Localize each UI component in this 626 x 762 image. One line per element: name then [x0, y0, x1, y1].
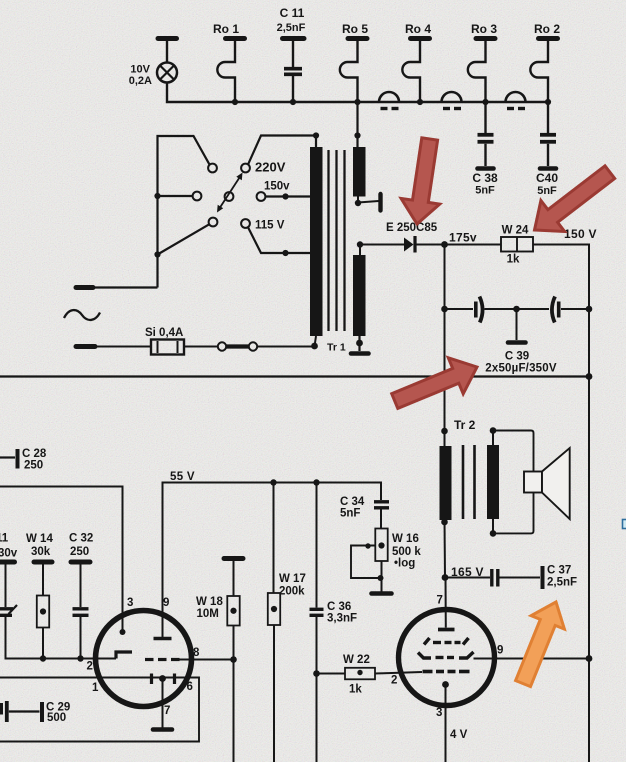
tube V1 grid dashes: [145, 658, 154, 661]
svg-text:W 18: W 18: [196, 596, 223, 608]
wire bus to secondary top: [356, 102, 358, 147]
choke Dr1: [379, 92, 399, 109]
svg-text:10M: 10M: [197, 608, 219, 620]
svg-text:C 34: C 34: [340, 496, 365, 508]
wire fuse to switch contacts: [184, 346, 218, 348]
tube V2 grid 3 row / pin 9: [418, 652, 474, 658]
svg-text:4 V: 4 V: [450, 729, 468, 741]
switch contact H: [218, 342, 226, 350]
wire 150V tap: [265, 195, 310, 197]
svg-text:3: 3: [436, 707, 442, 719]
tube V2 envelope: [399, 610, 495, 706]
wire 220V contact to transformer top: [248, 136, 316, 165]
svg-text:Tr 1: Tr 1: [327, 342, 346, 354]
wire Tr2 primary down to 165V: [444, 520, 447, 578]
tube heater Ro 4: [402, 39, 429, 103]
wire lower terminal to fuse: [95, 346, 151, 348]
svg-text:5nF: 5nF: [475, 185, 495, 197]
pilot lamp La 10V 0.2A: [129, 39, 177, 88]
svg-text:Ro 2: Ro 2: [534, 22, 560, 36]
wire W24 to right rail: [533, 245, 589, 762]
mains terminal upper: [76, 285, 93, 290]
wire: lamp to heater bus: [167, 83, 548, 103]
capacitor C38 5nF: [472, 102, 498, 197]
transformer Tr1 primary winding: [310, 147, 323, 336]
svg-text:8: 8: [193, 647, 200, 659]
svg-text:150v: 150v: [264, 181, 290, 193]
wire to tube1 pin 3: [0, 487, 123, 633]
svg-text:C 11: C 11: [280, 6, 305, 20]
switch blade: [226, 344, 248, 348]
svg-text:Ro 4: Ro 4: [405, 22, 431, 36]
capacitor C39a (electrolytic): [445, 297, 517, 323]
annotation red arrow 2 (W24): [535, 166, 615, 232]
svg-text:250: 250: [70, 546, 89, 558]
svg-text:200k: 200k: [279, 586, 305, 598]
selector wiper contact D: [225, 192, 234, 201]
svg-text:9: 9: [497, 645, 503, 657]
capacitor to C37: [445, 577, 490, 579]
svg-text:Ro 1: Ro 1: [213, 22, 239, 36]
tube V2 grid 1 row: [423, 670, 470, 674]
Tr2 core: [462, 445, 465, 519]
svg-text:2,5nF: 2,5nF: [277, 22, 306, 34]
trimmer capacitor (left edge): [0, 562, 116, 659]
diode E250C85 (selenium rectifier): [386, 222, 438, 253]
capacitor C32 250: [69, 533, 93, 659]
box around cathode circuit (pins 1/6 wire): [0, 678, 199, 742]
mains terminal lower: [76, 344, 95, 349]
choke Dr2: [442, 92, 462, 109]
svg-text:Ro 3: Ro 3: [471, 22, 497, 36]
svg-text:2,5nF: 2,5nF: [547, 577, 577, 589]
svg-text:C 28: C 28: [22, 448, 47, 460]
svg-text:1: 1: [92, 682, 99, 694]
Tr1 secondary bottom to chassis: [358, 336, 360, 351]
node C36/W22: [313, 670, 320, 677]
svg-text:9: 9: [163, 597, 169, 609]
svg-text:1k: 1k: [349, 684, 362, 696]
Tr1 secondary winding lower: [353, 255, 366, 336]
resistor W17 200k: [268, 483, 306, 762]
voltage selector left rail: [158, 136, 210, 288]
transformer Tr2 primary: [444, 431, 446, 446]
capacitor C37 2.5nF chassis plate: [541, 566, 545, 589]
chassis line: [0, 375, 589, 377]
switch contact I: [249, 342, 257, 350]
fuse Si 0.4A: [145, 327, 184, 355]
svg-text:6: 6: [187, 681, 193, 693]
blue fragment at right edge: [623, 520, 626, 529]
W16 bottom to chassis: [381, 561, 383, 592]
svg-text:55 V: 55 V: [170, 471, 195, 483]
svg-text:30v: 30v: [0, 548, 18, 560]
svg-text:220V: 220V: [255, 160, 286, 175]
svg-text:30k: 30k: [31, 546, 51, 558]
loudspeaker: [524, 448, 570, 519]
tube V1 envelope: [96, 611, 192, 707]
capacitor C36 3.3nF: [310, 483, 358, 762]
svg-text:W 16: W 16: [392, 533, 419, 545]
C39 common negative to chassis: [513, 306, 520, 313]
svg-text:2x50µF/350V: 2x50µF/350V: [485, 363, 557, 375]
svg-text:115 V: 115 V: [255, 220, 285, 232]
potentiometer W16 500k log: [375, 529, 421, 570]
svg-text:•log: •log: [394, 558, 415, 570]
selector contact 220V: [241, 164, 250, 173]
selector contact A: [208, 164, 217, 173]
wire Tr2 secondary to speaker: [493, 431, 534, 472]
capacitor C34 5nF: [340, 496, 389, 520]
wire 115V tap: [248, 227, 310, 253]
svg-text:150 V: 150 V: [564, 227, 597, 241]
left rail 175V down: [444, 245, 446, 432]
svg-text:C 32: C 32: [69, 533, 93, 545]
annotation red arrow 1 (rectifier): [401, 138, 440, 224]
svg-text:10V: 10V: [130, 64, 150, 76]
wire to contact B: [154, 193, 160, 199]
svg-text:Ro 5: Ro 5: [342, 22, 368, 36]
resistor W14 30k: [26, 533, 53, 659]
wire upper terminal to selector: [93, 286, 158, 288]
tube heater Ro 2: [530, 39, 557, 103]
selector contact 115V: [241, 219, 250, 228]
svg-text:Tr 2: Tr 2: [454, 418, 476, 432]
stub secondary to rectifier wire: [359, 245, 361, 256]
wire 175V rail to Tr2: [441, 428, 448, 435]
node 165V: [442, 574, 449, 581]
choke Dr3: [506, 92, 526, 109]
svg-text:C 37: C 37: [547, 565, 571, 577]
svg-text:W 24: W 24: [502, 225, 529, 237]
svg-text:3: 3: [127, 597, 133, 609]
Tr2 secondary: [487, 445, 499, 519]
capacitor C11 2.5nF: [277, 6, 306, 102]
wire diode to 175V node: [417, 244, 445, 246]
Tr1 centre tap terminal: [357, 197, 359, 204]
tube heater Ro 3: [468, 39, 495, 103]
svg-text:2: 2: [391, 675, 397, 687]
svg-text:11: 11: [0, 533, 9, 545]
wire to contact C: [154, 251, 160, 257]
capacitor C39b (electrolytic): [517, 297, 590, 323]
svg-text:250: 250: [24, 460, 43, 472]
svg-text:2: 2: [87, 661, 93, 673]
node 175V: [441, 241, 448, 248]
svg-text:5nF: 5nF: [340, 508, 360, 520]
svg-text:500 k: 500 k: [392, 546, 421, 558]
tube heater Ro 1: [217, 39, 244, 103]
svg-text:1k: 1k: [507, 254, 520, 266]
svg-text:W 14: W 14: [26, 533, 53, 545]
svg-text:7: 7: [164, 705, 170, 717]
capacitor C40 5nF: [536, 102, 558, 197]
wire 175V node to W24: [445, 244, 502, 246]
selector contact B: [193, 192, 202, 201]
svg-text:5nF: 5nF: [537, 185, 557, 197]
Tr1 core: [327, 150, 329, 331]
selector wiper arrow: [219, 176, 241, 209]
svg-text:7: 7: [437, 595, 443, 607]
tube V1 pin 3 anode dot: [120, 629, 126, 635]
selector contact 150V: [257, 192, 266, 201]
wire switch to transformer primary bottom: [257, 336, 316, 347]
svg-text:C 39: C 39: [505, 351, 529, 363]
svg-text:E 250C85: E 250C85: [386, 222, 438, 234]
tube heater Ro 5: [340, 39, 367, 103]
svg-text:175v: 175v: [449, 231, 477, 245]
svg-text:Si 0,4A: Si 0,4A: [145, 327, 183, 339]
capacitor C29 500: [0, 701, 70, 724]
svg-text:C40: C40: [536, 171, 558, 185]
svg-text:500: 500: [47, 712, 66, 724]
resistor W22 1k: [317, 654, 376, 696]
svg-text:W 17: W 17: [279, 573, 306, 585]
svg-text:W 22: W 22: [343, 654, 370, 666]
tube V2 grid 2 row: [424, 638, 469, 645]
selector contact C: [209, 218, 218, 227]
Tr1 secondary winding upper: [353, 147, 366, 197]
resistor W18 10M: [196, 559, 243, 762]
resistor W24 1k: [501, 225, 533, 266]
annotation red arrow 3 (C39 label): [392, 358, 477, 409]
AC symbol: [64, 310, 100, 320]
wire secondary to diode: [360, 244, 404, 246]
capacitor C28 250: [0, 448, 47, 472]
W16 wiper feedback wire: [351, 546, 381, 579]
svg-text:0,2A: 0,2A: [129, 75, 152, 87]
annotation orange arrow (C37): [516, 602, 565, 687]
svg-text:3,3nF: 3,3nF: [327, 613, 357, 625]
svg-text:C 38: C 38: [472, 171, 498, 185]
stub primary top: [315, 136, 317, 148]
svg-text:C 36: C 36: [327, 601, 351, 613]
